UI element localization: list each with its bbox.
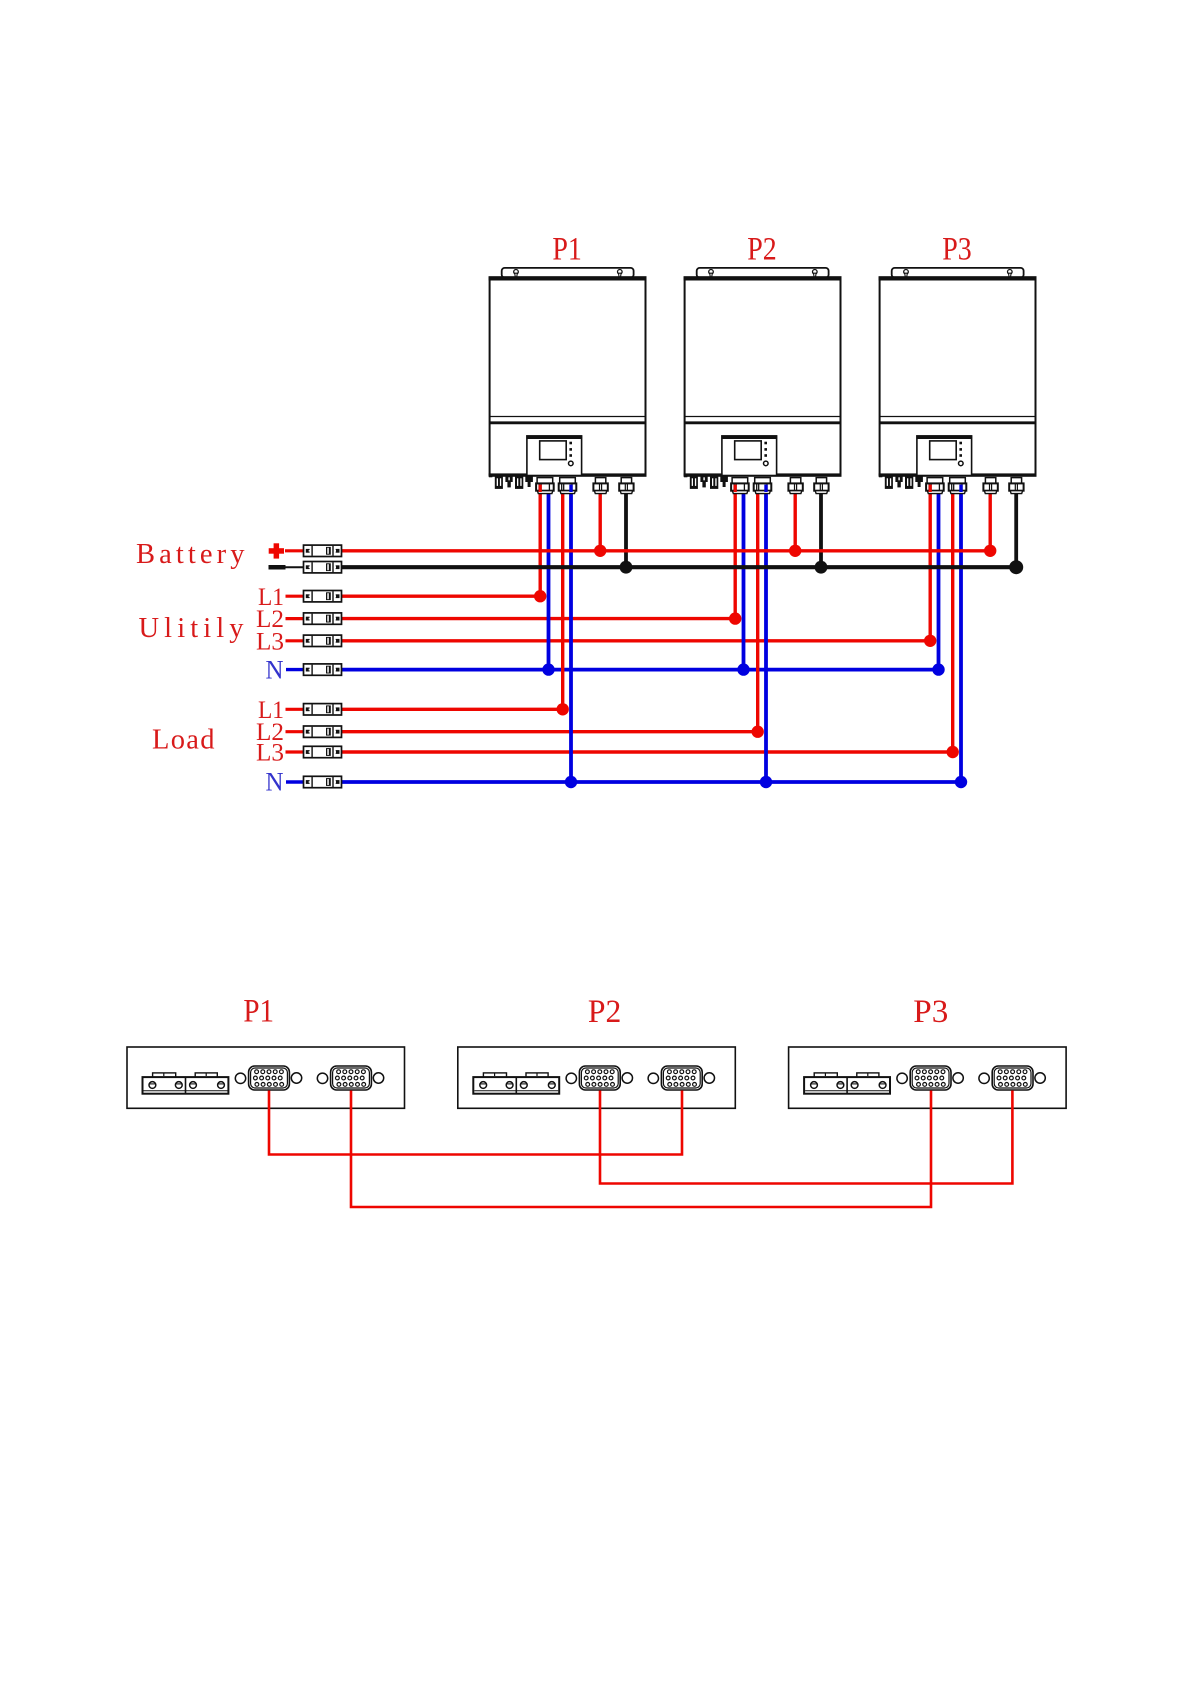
svg-text:P1: P1 xyxy=(552,232,582,268)
svg-text:L3: L3 xyxy=(256,628,284,655)
svg-text:N: N xyxy=(266,655,284,684)
svg-text:L3: L3 xyxy=(256,740,284,767)
svg-text:P1: P1 xyxy=(243,994,274,1030)
svg-text:Ulitily: Ulitily xyxy=(139,613,245,644)
svg-text:P2: P2 xyxy=(588,994,621,1030)
svg-text:N: N xyxy=(266,768,284,797)
svg-text:Battery: Battery xyxy=(136,539,245,570)
svg-text:P3: P3 xyxy=(913,994,948,1030)
svg-text:Load: Load xyxy=(152,725,215,756)
svg-text:P3: P3 xyxy=(942,232,972,268)
svg-text:P2: P2 xyxy=(747,232,777,268)
